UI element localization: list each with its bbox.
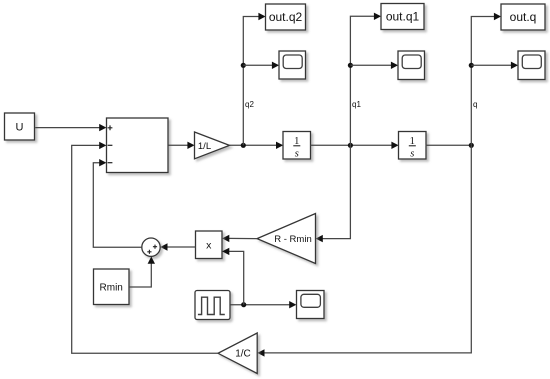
junction dot q2 [241,143,246,148]
wire q1 tap to scope 2 [350,62,398,69]
wire sum output to gain 1/L [168,142,194,149]
wire node q up to out.q [471,13,501,146]
constant block U [5,113,35,140]
wire gain 1/L to integrator 1 [230,142,284,149]
scope block 4 [297,291,325,319]
gain R-Rmin [257,214,316,264]
junction dot q1 scope tap [348,63,353,68]
junction dot q2 scope tap [241,63,246,68]
junction dot q1 [348,143,353,148]
pulse generator [195,291,230,320]
integrator 1 [283,132,311,160]
wire pulse tap to product input 2 [222,248,244,305]
wire gain R-Rmin to product input 1 [222,235,257,242]
wire U to sum input 1 [35,124,106,131]
svg-text:q: q [473,100,477,109]
outport block out.q1 [381,4,424,30]
junction dot pulse tap [241,302,246,307]
wire integrator 1 to integrator 2 [311,142,399,149]
scope block 1 [279,51,306,79]
scope block 3 [518,51,545,80]
wire node q1 down to gain R-Rmin [316,145,351,242]
svg-text:1/L: 1/L [198,141,211,152]
svg-text:out.q2: out.q2 [269,10,303,24]
product block x [196,231,223,259]
junction dot q scope tap [469,63,474,68]
svg-text:R - Rmin: R - Rmin [274,234,311,245]
outport block out.q [501,4,545,30]
svg-text:out.q: out.q [510,10,537,24]
svg-text:out.q1: out.q1 [386,10,420,24]
sum block S1 [107,118,169,173]
integrator 2 [399,132,427,160]
wire node q2 up to out.q2 [243,13,265,146]
svg-text:s: s [295,149,299,160]
wire Rmin to sum circle bottom [129,257,155,288]
outport block out.q2 [266,4,306,30]
svg-text:s: s [410,149,414,160]
svg-text:Rmin: Rmin [100,283,123,294]
wire q2 tap to scope 1 [243,62,279,69]
constant block Rmin [94,269,130,305]
junction dot q [469,143,474,148]
svg-text:x: x [206,240,212,252]
gain 1/C [218,333,257,374]
wire gain 1/C to sum input 2 [72,142,218,354]
svg-text:1/C: 1/C [235,349,251,360]
svg-text:U: U [16,122,24,134]
svg-text:q1: q1 [352,100,361,109]
wire q tap to scope 3 [471,62,518,69]
gain 1/L [195,132,230,159]
wire pulse generator to scope 4 [230,301,296,308]
svg-text:q2: q2 [245,100,254,109]
wire sum circle output to sum input 3 [93,159,142,247]
wire product output to sum circle [160,243,195,250]
wire integrator 2 to node q [426,144,472,146]
wire node q1 up to out.q1 [350,13,381,146]
wire node q down to gain 1/C [257,145,471,356]
scope block 2 [398,51,425,80]
sum circle S2 [142,238,160,256]
